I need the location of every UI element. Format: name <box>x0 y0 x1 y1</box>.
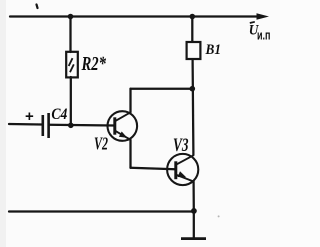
svg-text:+: + <box>25 108 34 125</box>
wire R2 branch upper <box>69 17 71 53</box>
node junction input/R2 <box>68 123 74 129</box>
resistor R2 adjust slash 1 <box>69 58 73 66</box>
resistor R2 adjust slash 2 <box>70 64 74 72</box>
speck artifact <box>218 215 220 217</box>
V2 emitter arrowhead <box>119 132 128 138</box>
capacitor C4 <box>43 113 49 138</box>
transistor V2 envelope <box>108 111 138 141</box>
arrow output U <box>257 13 270 20</box>
transistor V2 emitter lead <box>115 131 131 140</box>
tick mark above rail <box>37 5 38 9</box>
transistor V2 <box>108 111 138 141</box>
svg-text:V3: V3 <box>173 135 189 156</box>
transistor V3 base bar <box>174 161 177 179</box>
wire V2 collector to B1 node <box>131 88 193 90</box>
wire ground lead <box>193 212 195 239</box>
wire bottom rail <box>9 210 194 212</box>
wire V2 emitter drop <box>129 140 131 168</box>
wire input left segment <box>9 123 42 126</box>
wire B1 to V3 collector <box>191 59 194 155</box>
wire V2 collector riser <box>129 89 131 113</box>
transistor V3 emitter lead <box>176 175 194 182</box>
lamp B1 <box>187 42 201 59</box>
resistor R2 body <box>66 52 78 78</box>
transistor V3 envelope <box>167 154 198 185</box>
wire V3 emitter drop <box>192 182 194 212</box>
wire R2 branch lower <box>70 77 72 124</box>
svg-text:В1: В1 <box>205 42 221 58</box>
ground <box>181 237 206 240</box>
svg-text:C4: C4 <box>51 106 67 123</box>
transistor V3 collector lead <box>176 155 194 165</box>
transistor V2 base bar <box>113 117 116 134</box>
node junction collector/B1 <box>190 86 196 92</box>
transistor V3 <box>167 154 198 185</box>
wire B1 branch upper <box>191 17 193 43</box>
svg-text:R2*: R2* <box>81 53 107 75</box>
capacitor C4 left plate <box>41 115 44 136</box>
node junction top-left <box>68 14 74 20</box>
wire input to V2 base <box>49 124 114 127</box>
transistor V2 collector lead <box>115 112 131 121</box>
resistor R2 <box>66 52 78 78</box>
svg-text:и.п: и.п <box>257 28 271 42</box>
V3 emitter arrowhead <box>178 171 187 177</box>
svg-text:V2: V2 <box>94 134 108 154</box>
wire V2 emitter to V3 base <box>131 168 176 170</box>
capacitor C4 right plate <box>47 113 50 138</box>
node junction bottom <box>191 208 197 214</box>
wire top positive rail <box>10 15 258 17</box>
node junction top-right <box>190 14 196 20</box>
label U supply <box>249 22 271 43</box>
